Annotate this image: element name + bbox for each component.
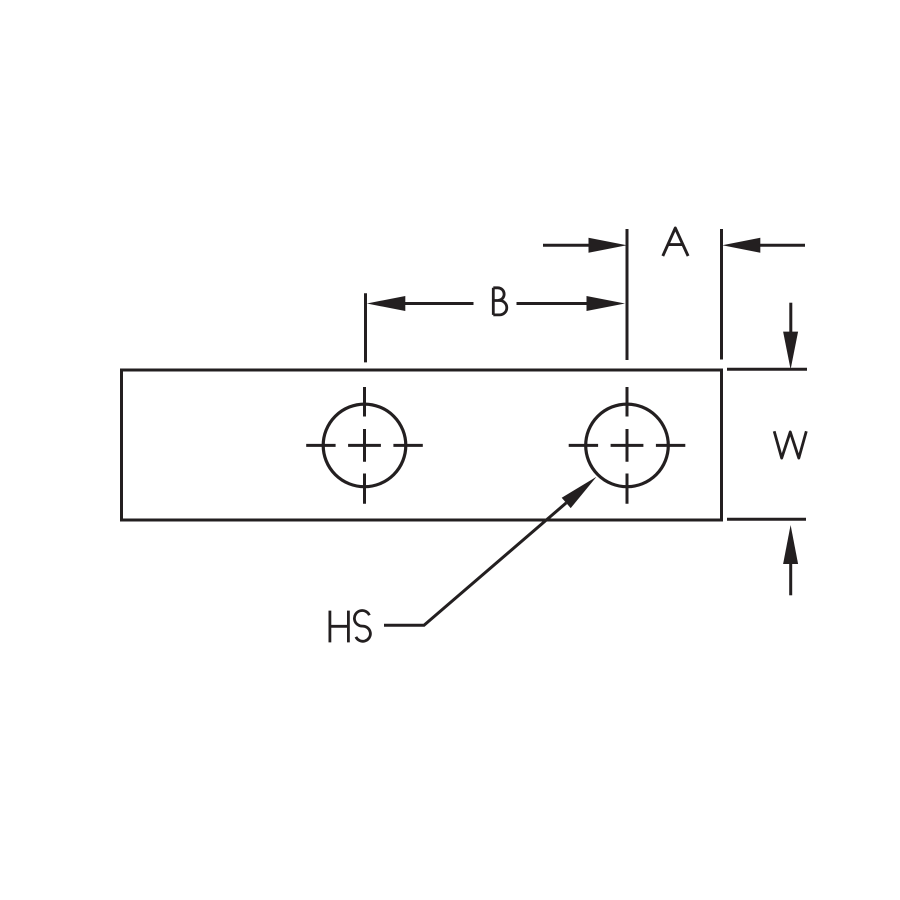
extension line top right (W)	[727, 368, 807, 371]
label A	[663, 228, 688, 256]
label HS	[330, 611, 349, 643]
label B	[493, 288, 506, 315]
dim W top arrow	[789, 303, 792, 333]
hole 1 (left)	[323, 404, 406, 487]
extension line from hole 1 center	[364, 293, 367, 362]
plate outline	[122, 370, 722, 520]
leader arrowhead	[562, 477, 597, 508]
dim B right line	[517, 302, 588, 305]
hole 2 center mark	[569, 387, 686, 504]
hole 2 (right)	[586, 404, 669, 487]
dim B left line	[405, 302, 474, 305]
extension line from hole 2 center	[626, 229, 629, 360]
extension line at plate right edge	[720, 229, 723, 360]
hole 1 center mark	[306, 387, 423, 504]
leader line	[384, 503, 566, 625]
dim A left arrow	[543, 244, 589, 247]
dim W bottom arrow	[789, 563, 792, 595]
extension line bottom right (W)	[727, 518, 806, 521]
dim B right arrowhead	[587, 296, 626, 311]
label W	[774, 431, 806, 458]
dim B left arrowhead	[367, 296, 405, 311]
dim A right arrow	[760, 244, 805, 247]
